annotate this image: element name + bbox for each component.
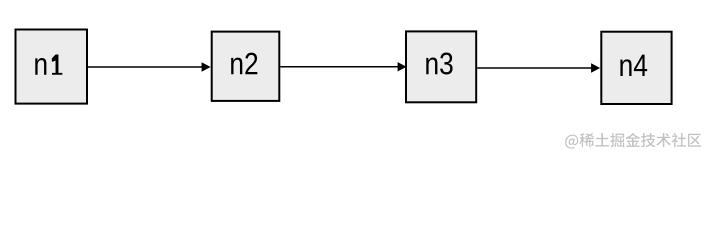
label n2 bbox=[231, 53, 257, 75]
label n3 bbox=[426, 53, 452, 75]
node n3 box bbox=[406, 31, 476, 102]
label n4 bbox=[620, 55, 647, 76]
node n1 box bbox=[16, 30, 88, 104]
node n4 box bbox=[601, 32, 671, 104]
node n2 box bbox=[212, 32, 280, 101]
label n1 bbox=[35, 54, 62, 74]
wire arrow n2 to n3 bbox=[280, 62, 406, 71]
wire arrow n1 to n2 bbox=[88, 62, 211, 71]
watermark @稀土掘金技术社区 bbox=[565, 133, 701, 149]
wire arrow n3 to n4 bbox=[477, 63, 600, 72]
